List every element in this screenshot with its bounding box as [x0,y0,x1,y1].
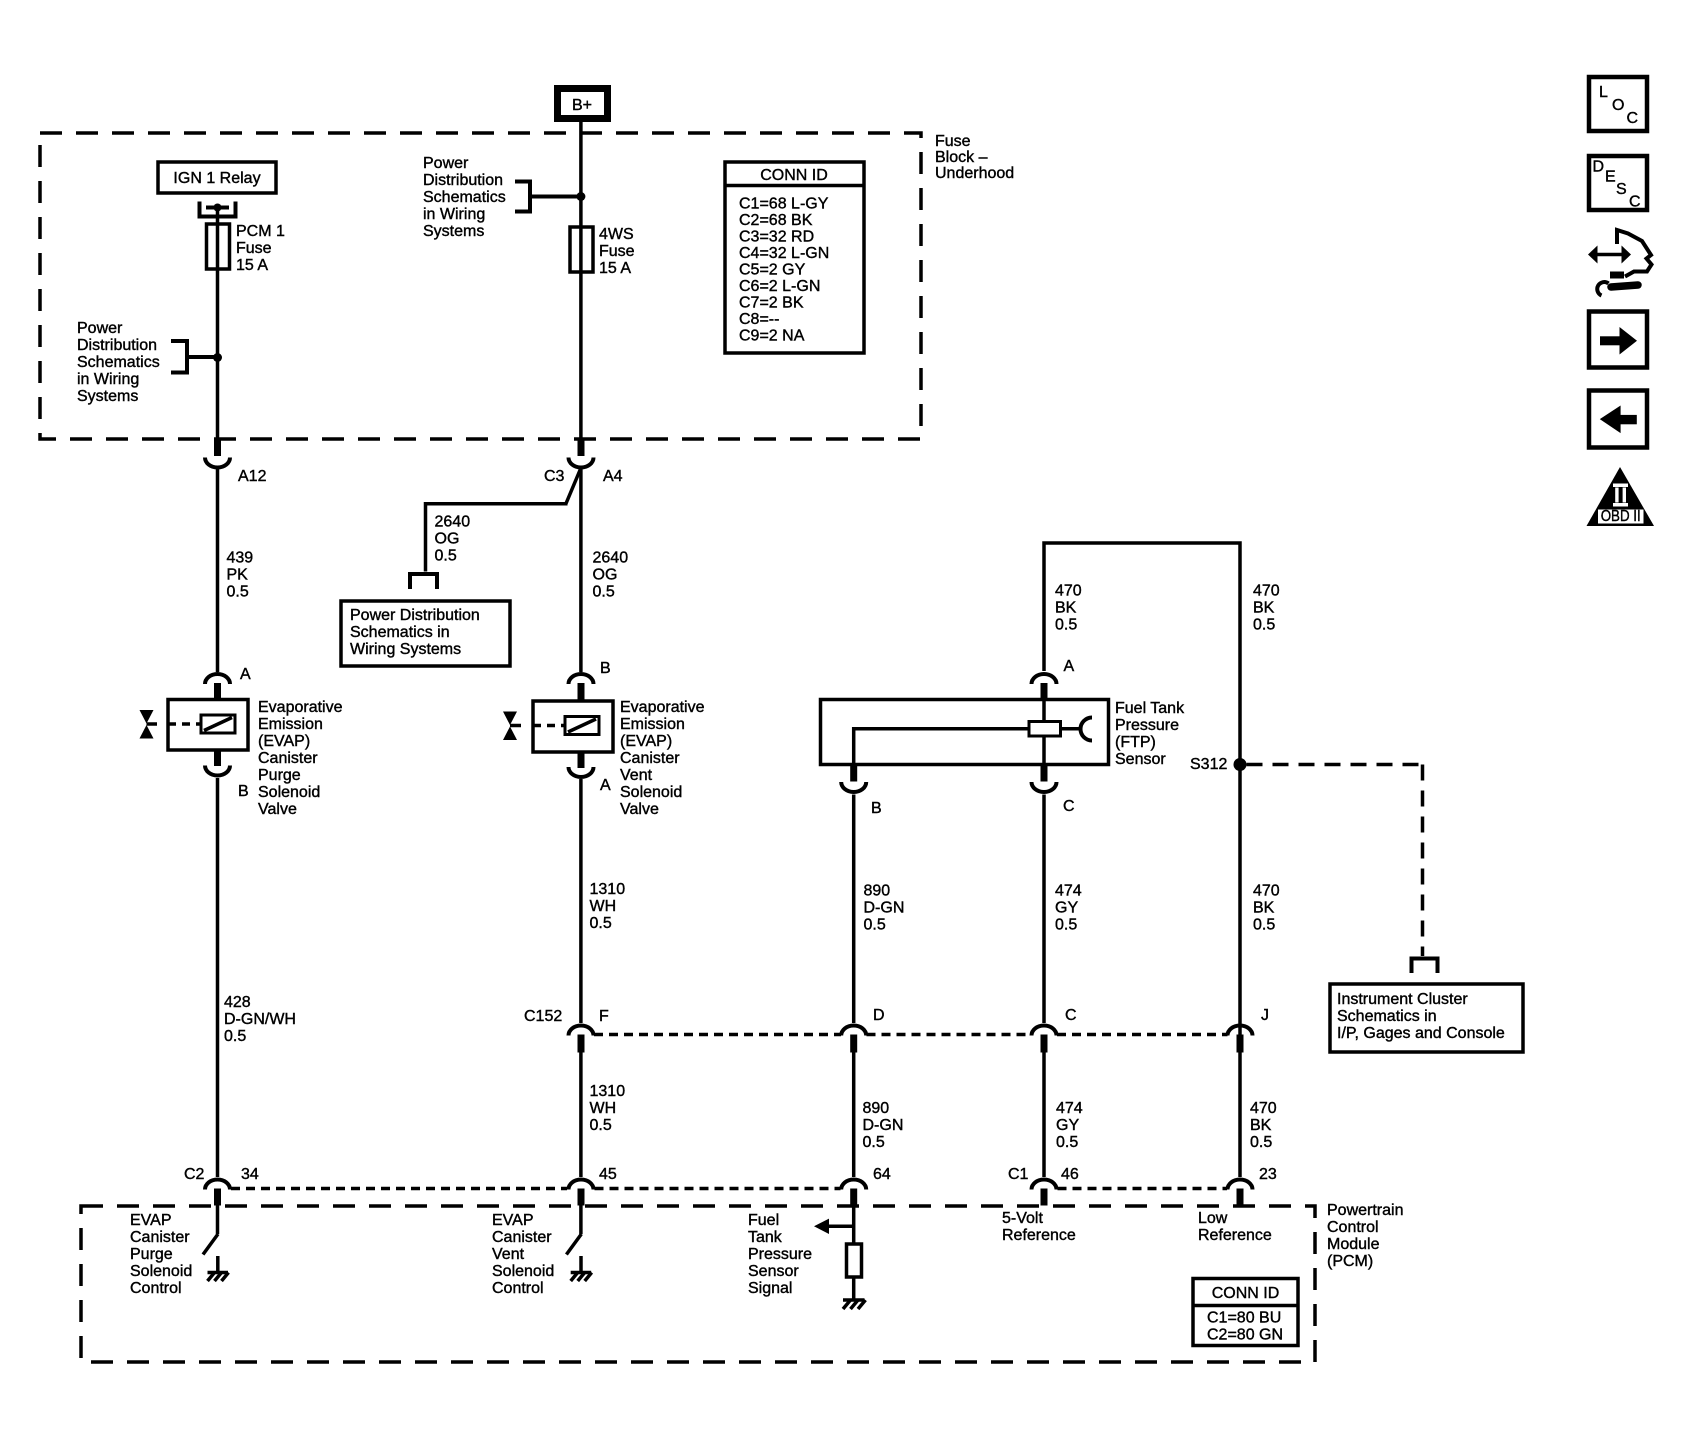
svg-text:Fuse: Fuse [935,133,971,150]
label: 5-Volt Reference [1002,1210,1076,1244]
icon: OBD II warning triangle [1587,467,1655,526]
connector A (EVAP purge valve) [205,666,251,700]
connector PCM pin 34 (C2) [184,1166,259,1206]
svg-text:S312: S312 [1190,756,1227,773]
connector B (EVAP vent valve) [569,660,611,701]
svg-text:D-GN: D-GN [864,900,905,917]
connector B (FTP sensor) [841,765,881,818]
svg-text:Power: Power [423,155,469,172]
wire label 474 GY 0.5 (lower) [1056,1100,1083,1151]
resistor (PCM input pull) [847,1244,862,1277]
svg-text:D: D [873,1007,885,1024]
svg-text:C1: C1 [1008,1166,1029,1183]
svg-text:470: 470 [1253,883,1280,900]
svg-text:Block –: Block – [935,149,988,166]
svg-text:S: S [1616,181,1627,198]
svg-text:WH: WH [590,898,617,915]
connector C152 pin D [841,1007,884,1053]
svg-text:C2=80 GN: C2=80 GN [1207,1327,1283,1344]
svg-text:Vent: Vent [492,1246,525,1263]
svg-text:Fuse: Fuse [599,243,635,260]
svg-text:C3=32 RD: C3=32 RD [739,229,814,246]
svg-text:A4: A4 [603,468,623,485]
svg-text:470: 470 [1253,583,1280,600]
svg-text:Pressure: Pressure [1115,717,1179,734]
wire: dashed S312 branch to instrument cluster [1247,765,1423,957]
connector A12 [205,440,267,485]
svg-text:Reference: Reference [1198,1227,1272,1244]
wire label 439 PK 0.5 [227,550,254,601]
svg-text:C8=--: C8=-- [739,311,779,328]
svg-text:C2: C2 [184,1166,205,1183]
svg-text:890: 890 [863,1100,890,1117]
svg-text:Emission: Emission [258,716,323,733]
svg-text:Vent: Vent [620,767,653,784]
svg-text:C6=2 L-GN: C6=2 L-GN [739,278,820,295]
svg-text:CONN ID: CONN ID [760,167,828,184]
table CONN ID (PCM) [1193,1279,1298,1346]
svg-text:Sensor: Sensor [748,1263,799,1280]
svg-text:Solenoid: Solenoid [620,784,682,801]
icon: vehicle data / wrench [1588,230,1652,296]
svg-text:C9=2 NA: C9=2 NA [739,328,805,345]
fuse PCM 1 15A [207,223,286,274]
wire label 470 BK 0.5 (right top) [1253,583,1280,634]
svg-text:0.5: 0.5 [590,1117,612,1134]
label: Fuel Tank Pressure Sensor Signal [748,1212,812,1297]
svg-text:Canister: Canister [258,750,318,767]
svg-text:OG: OG [435,531,460,548]
svg-text:BK: BK [1253,600,1275,617]
svg-text:45: 45 [599,1166,617,1183]
svg-text:4WS: 4WS [599,226,634,243]
svg-text:0.5: 0.5 [863,1134,885,1151]
table CONN ID (fuse block) [725,162,864,353]
label: Powertrain Control Module (PCM) [1327,1202,1403,1270]
wire label 428 D-GN/WH 0.5 [224,994,296,1045]
svg-text:B: B [600,660,611,677]
svg-text:1310: 1310 [590,1083,626,1100]
svg-text:0.5: 0.5 [590,915,612,932]
svg-text:L: L [1599,84,1608,101]
svg-text:C: C [1063,798,1075,815]
svg-text:Systems: Systems [423,223,484,240]
connector C152 pin C [1032,1007,1077,1053]
svg-text:0.5: 0.5 [1056,1134,1078,1151]
svg-text:C4=32 L-GN: C4=32 L-GN [739,245,829,262]
svg-text:Fuel: Fuel [748,1212,779,1229]
svg-text:Fuel Tank: Fuel Tank [1115,700,1185,717]
svg-text:46: 46 [1061,1166,1079,1183]
wire label 1310 WH 0.5 (lower) [590,1083,626,1134]
connector A (FTP sensor) [1032,658,1075,700]
svg-text:BK: BK [1253,900,1275,917]
label: Fuel Tank Pressure (FTP) Sensor [1115,700,1185,768]
connector C152 pin F [569,1008,610,1053]
svg-text:Module: Module [1327,1236,1380,1253]
label: EVAP Canister Vent Solenoid Control [492,1212,554,1297]
svg-text:0.5: 0.5 [1253,917,1275,934]
svg-text:Purge: Purge [130,1246,173,1263]
svg-text:O: O [1612,97,1624,114]
svg-text:890: 890 [864,883,891,900]
svg-text:PCM 1: PCM 1 [236,223,285,240]
svg-text:(EVAP): (EVAP) [258,733,310,750]
fuse block underhood dashed box [40,133,921,439]
node: junction on 4WS fuse wire [576,192,585,201]
ground (FTP signal) [843,1300,866,1309]
wire label 890 D-GN 0.5 (upper) [864,883,905,934]
connector C (FTP sensor) [1032,765,1075,816]
svg-text:Control: Control [130,1280,182,1297]
svg-text:Canister: Canister [130,1229,190,1246]
svg-text:GY: GY [1056,1117,1079,1134]
svg-text:Valve: Valve [258,801,297,818]
svg-text:Instrument Cluster: Instrument Cluster [1337,991,1468,1008]
wire label 470 BK 0.5 (left top) [1055,583,1082,634]
svg-text:0.5: 0.5 [1055,617,1077,634]
relay IGN 1 contact symbol [200,202,236,217]
connector C3 / A4 [544,440,623,485]
svg-text:Fuse: Fuse [236,240,272,257]
svg-text:0.5: 0.5 [227,584,249,601]
svg-text:Low: Low [1198,1210,1228,1227]
svg-text:Canister: Canister [620,750,680,767]
svg-text:(PCM): (PCM) [1327,1253,1373,1270]
svg-text:34: 34 [241,1166,259,1183]
svg-text:Tank: Tank [748,1229,783,1246]
svg-text:Systems: Systems [77,388,138,405]
svg-text:EVAP: EVAP [130,1212,172,1229]
svg-text:C3: C3 [544,468,565,485]
connector C152 pin J [1228,1007,1270,1053]
fuel tank pressure sensor box [821,700,1109,765]
ground (vent driver) [571,1256,592,1281]
wire label 1310 WH 0.5 (upper) [590,881,626,932]
svg-text:D: D [1593,159,1605,176]
wire label 2640 OG 0.5 (to valve) [593,550,629,601]
svg-text:Power Distribution: Power Distribution [350,607,480,624]
svg-text:C2=68 BK: C2=68 BK [739,212,813,229]
svg-text:C1=68 L-GY: C1=68 L-GY [739,196,829,213]
label: power distribution schematics (right) with bracket [423,155,579,240]
svg-text:Solenoid: Solenoid [130,1263,192,1280]
solenoid valve EVAP canister purge [168,700,248,751]
label: power distribution schematics (left) with bracket [77,320,216,405]
svg-text:C152: C152 [524,1008,562,1025]
box: instrument cluster schematics [1330,984,1523,1052]
valve symbol (bowtie) purge [140,710,158,739]
svg-text:BK: BK [1055,600,1077,617]
svg-text:WH: WH [590,1100,617,1117]
svg-text:C: C [1629,194,1641,211]
svg-text:D-GN/WH: D-GN/WH [224,1011,296,1028]
svg-text:D-GN: D-GN [863,1117,904,1134]
svg-text:64: 64 [873,1166,891,1183]
relay IGN 1 label box [158,162,276,193]
svg-text:Evaporative: Evaporative [258,699,343,716]
svg-text:IGN 1 Relay: IGN 1 Relay [173,170,260,187]
label: Fuse Block - Underhood [935,133,1014,182]
svg-text:Wiring Systems: Wiring Systems [350,641,461,658]
connector PCM pin 64 [841,1166,891,1206]
svg-text:C5=2 GY: C5=2 GY [739,262,806,279]
svg-text:Schematics in: Schematics in [1337,1008,1437,1025]
svg-text:Valve: Valve [620,801,659,818]
icon: LOC button [1589,77,1647,131]
svg-text:B: B [238,783,249,800]
svg-text:I/P, Gages and Console: I/P, Gages and Console [1337,1025,1505,1042]
svg-text:OBD II: OBD II [1601,508,1641,525]
ground (purge driver) [208,1256,229,1281]
svg-text:474: 474 [1055,883,1082,900]
wire label 470 BK 0.5 (middle right) [1253,883,1280,934]
svg-text:Control: Control [1327,1219,1379,1236]
svg-text:B+: B+ [572,97,592,114]
svg-text:Powertrain: Powertrain [1327,1202,1403,1219]
node: junction on PCM1 fuse wire [213,353,222,362]
svg-text:0.5: 0.5 [593,584,615,601]
svg-text:15 A: 15 A [599,260,631,277]
svg-text:2640: 2640 [593,550,629,567]
svg-text:0.5: 0.5 [1055,917,1077,934]
icon: next arrow button [1589,312,1647,368]
svg-text:C: C [1065,1007,1077,1024]
svg-text:OG: OG [593,567,618,584]
wire label 2640 OG 0.5 (branch) [435,514,471,565]
label: Low Reference [1198,1210,1272,1244]
svg-text:5-Volt: 5-Volt [1002,1210,1043,1227]
svg-text:0.5: 0.5 [224,1028,246,1045]
connector B (EVAP purge valve) [205,750,249,800]
icon: DESC button [1589,156,1647,211]
svg-text:474: 474 [1056,1100,1083,1117]
wire: FTP sensor B to PCM 64 (890 D-GN) [852,795,856,1301]
svg-text:A: A [240,666,251,683]
svg-text:Reference: Reference [1002,1227,1076,1244]
svg-text:B: B [871,800,882,817]
connector PCM pin 23 [1228,1166,1277,1206]
svg-text:Sensor: Sensor [1115,751,1166,768]
svg-text:PK: PK [227,567,249,584]
svg-text:Power: Power [77,320,123,337]
svg-text:J: J [1261,1007,1269,1024]
wire label 470 BK 0.5 (lower) [1250,1100,1277,1151]
svg-text:23: 23 [1259,1166,1277,1183]
wire: S312 to PCM 23 (470 BK) [1238,765,1242,1178]
svg-text:C1=80 BU: C1=80 BU [1207,1310,1281,1327]
wire: B+ to valve (2640 OG / 1310 WH) [579,122,583,1234]
powertrain control module dashed box [81,1206,1315,1362]
svg-text:A12: A12 [238,468,267,485]
wire label 474 GY 0.5 (upper) [1055,883,1082,934]
svg-text:Signal: Signal [748,1280,792,1297]
svg-text:Schematics in: Schematics in [350,624,450,641]
goalpost symbol to power distribution [410,574,437,589]
svg-text:A: A [1064,658,1075,675]
svg-text:in Wiring: in Wiring [77,371,139,388]
svg-text:1310: 1310 [590,881,626,898]
svg-text:Schematics: Schematics [77,354,160,371]
svg-text:0.5: 0.5 [435,548,457,565]
svg-text:C: C [1627,110,1639,127]
svg-text:470: 470 [1250,1100,1277,1117]
svg-text:Schematics: Schematics [423,189,506,206]
connector A (EVAP vent valve) [569,752,612,794]
in-line connector C152 dashed line [524,1008,1228,1035]
svg-text:428: 428 [224,994,251,1011]
svg-text:Canister: Canister [492,1229,552,1246]
label: Evaporative Emission (EVAP) Canister Vent Solenoid Valve [620,699,705,818]
svg-text:Pressure: Pressure [748,1246,812,1263]
svg-text:0.5: 0.5 [864,917,886,934]
svg-text:439: 439 [227,550,254,567]
svg-text:GY: GY [1055,900,1078,917]
svg-text:Solenoid: Solenoid [492,1263,554,1280]
svg-text:A: A [600,777,611,794]
svg-text:Distribution: Distribution [77,337,157,354]
svg-text:EVAP: EVAP [492,1212,534,1229]
svg-text:C7=2 BK: C7=2 BK [739,295,804,312]
svg-text:Evaporative: Evaporative [620,699,705,716]
valve symbol (bowtie) vent [503,712,521,741]
arrow: fuel tank pressure sensor signal tap [814,1219,854,1234]
svg-text:(FTP): (FTP) [1115,734,1156,751]
solenoid valve EVAP canister vent [533,701,613,752]
fuse 4WS 15A [570,226,635,277]
wire: FTP sensor top loop and C to PCM 46 (470 BK / 474 GY) [1044,543,1240,1177]
svg-text:Distribution: Distribution [423,172,503,189]
svg-text:Purge: Purge [258,767,301,784]
box: power distribution schematics in wiring systems [341,601,510,666]
wire: branch to power distribution (2640 OG) [426,468,581,572]
connector PCM pin 45 [569,1166,617,1206]
svg-text:F: F [599,1008,609,1025]
switch: EVAP canister vent solenoid control driver [566,1234,581,1255]
svg-text:E: E [1605,169,1616,186]
node S312 [1190,756,1247,773]
svg-text:CONN ID: CONN ID [1212,1285,1280,1302]
svg-text:Emission: Emission [620,716,685,733]
svg-text:0.5: 0.5 [1250,1134,1272,1151]
svg-text:Solenoid: Solenoid [258,784,320,801]
svg-text:Underhood: Underhood [935,165,1014,182]
label: EVAP Canister Purge Solenoid Control [130,1212,192,1297]
wire label 890 D-GN 0.5 (lower) [863,1100,904,1151]
switch: EVAP canister purge solenoid control driver [203,1234,218,1255]
goalpost symbol to instrument cluster [1412,959,1438,974]
wire: IGN1 relay to A12 (439 PK) [216,208,220,1235]
svg-text:BK: BK [1250,1117,1272,1134]
PCM pin row dashed line [231,1187,1227,1191]
svg-text:0.5: 0.5 [1253,617,1275,634]
svg-text:2640: 2640 [435,514,471,531]
connector PCM pin 46 (C1) [1008,1166,1079,1206]
icon: back arrow button [1589,391,1647,448]
label: Evaporative Emission (EVAP) Canister Purge Solenoid Valve [258,699,343,818]
svg-text:15 A: 15 A [236,257,268,274]
svg-text:Control: Control [492,1280,544,1297]
svg-text:470: 470 [1055,583,1082,600]
svg-text:in Wiring: in Wiring [423,206,485,223]
svg-text:(EVAP): (EVAP) [620,733,672,750]
power feed B+ [558,89,608,119]
